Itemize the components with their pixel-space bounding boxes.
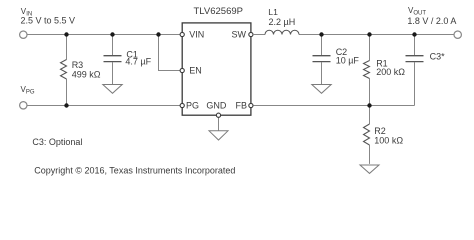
svg-text:4.7 µF: 4.7 µF <box>125 57 151 67</box>
svg-text:TLV62569P: TLV62569P <box>194 6 243 17</box>
svg-text:2.2 µH: 2.2 µH <box>269 17 296 27</box>
svg-text:499 kΩ: 499 kΩ <box>72 70 101 80</box>
svg-text:L1: L1 <box>268 7 278 17</box>
svg-text:SW: SW <box>232 30 247 40</box>
svg-text:EN: EN <box>189 66 202 76</box>
svg-text:PG: PG <box>26 90 35 96</box>
svg-text:10 µF: 10 µF <box>336 56 360 66</box>
svg-text:C3*: C3* <box>430 52 446 62</box>
svg-text:PG: PG <box>186 101 199 111</box>
svg-text:200 kΩ: 200 kΩ <box>376 67 405 77</box>
svg-text:C3: Optional: C3: Optional <box>32 137 82 147</box>
svg-text:1.8 V / 2.0 A: 1.8 V / 2.0 A <box>407 16 456 26</box>
svg-text:R3: R3 <box>72 60 84 70</box>
svg-text:FB: FB <box>236 101 248 111</box>
svg-text:VIN: VIN <box>189 30 204 40</box>
svg-text:2.5 V to 5.5 V: 2.5 V to 5.5 V <box>21 16 76 26</box>
svg-text:100 kΩ: 100 kΩ <box>374 135 403 145</box>
svg-text:GND: GND <box>206 101 227 111</box>
svg-text:Copyright © 2016, Texas Instru: Copyright © 2016, Texas Instruments Inco… <box>34 166 235 176</box>
